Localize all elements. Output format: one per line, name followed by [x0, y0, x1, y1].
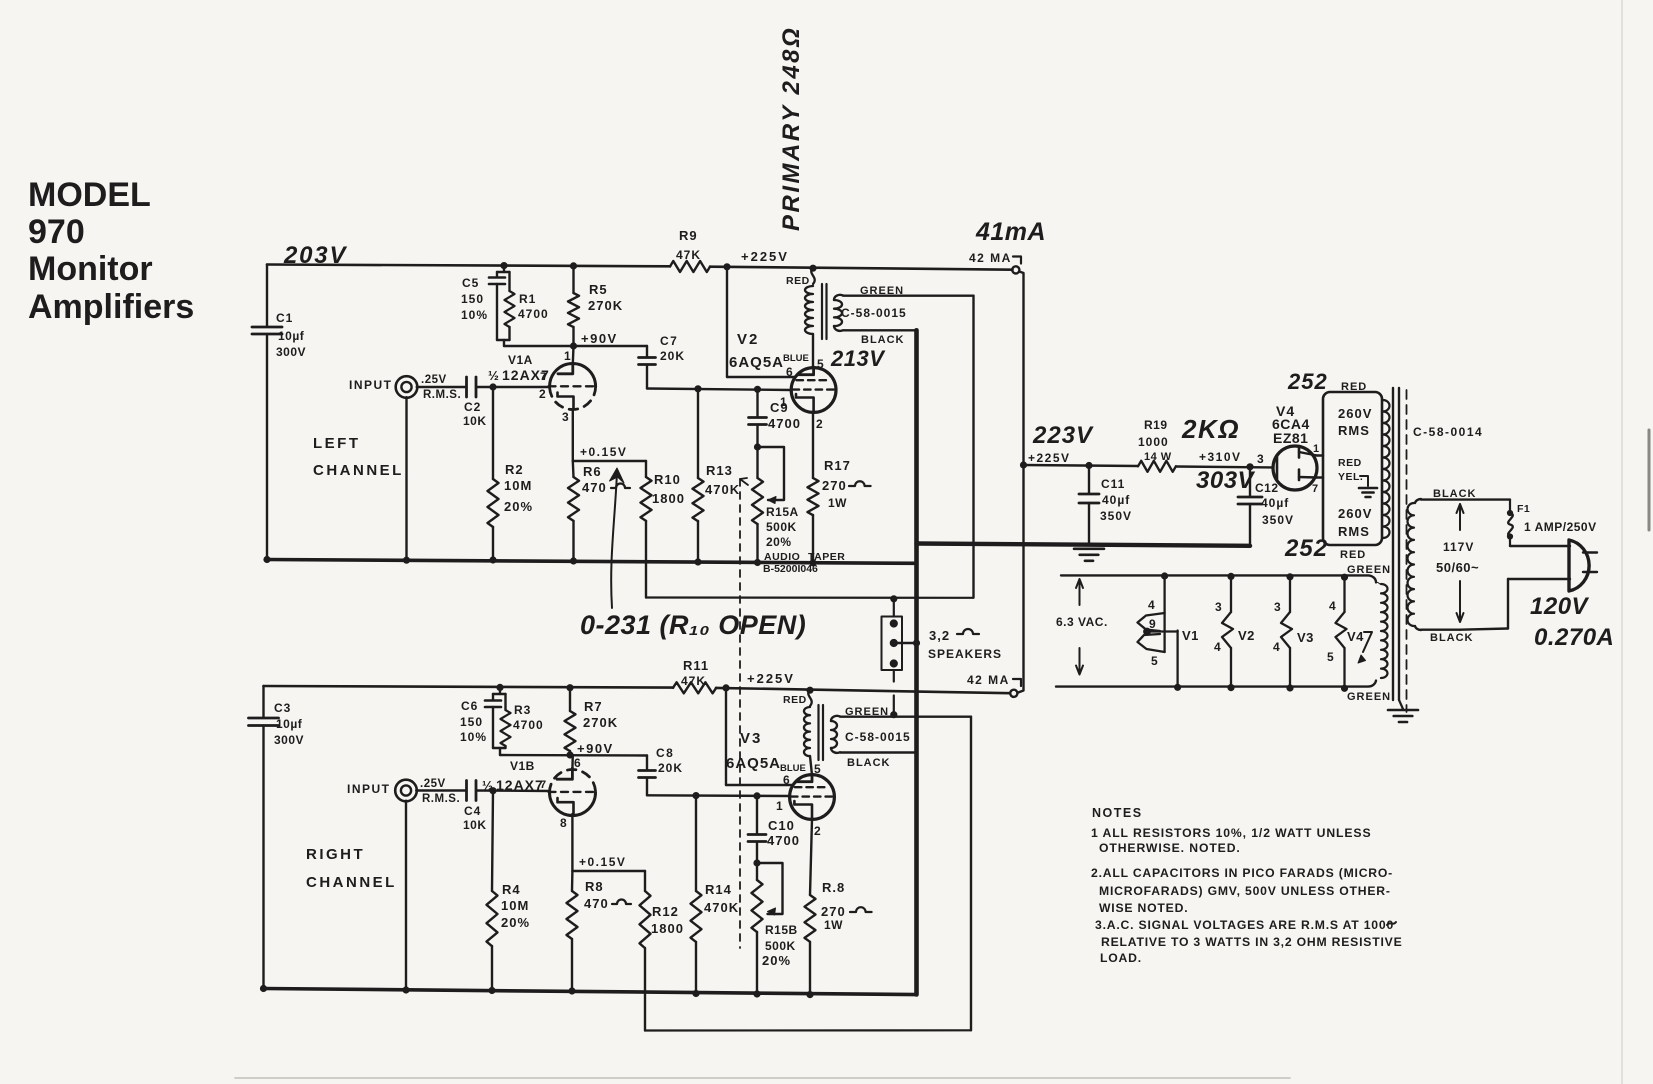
svg-text:C-58-0015: C-58-0015 [841, 306, 907, 320]
wire left channel bottom rail [267, 560, 917, 564]
svg-text:500K: 500K [766, 520, 797, 534]
wire +225V rail right of R9 to 42MA jack [710, 267, 1013, 270]
svg-text:INPUT: INPUT [349, 378, 393, 392]
wire T2 green lead to speaker switch [831, 716, 971, 721]
heater V2 [1228, 573, 1234, 579]
svg-text:20%: 20% [501, 915, 530, 930]
svg-text:GREEN: GREEN [1347, 691, 1391, 703]
svg-text:4: 4 [1329, 599, 1336, 613]
resistor R17 (270 1W, V2 cathode) [812, 412, 814, 478]
svg-text:0-231 (R₁₀ OPEN): 0-231 (R₁₀ OPEN) [580, 610, 806, 640]
svg-text:300V: 300V [274, 733, 304, 747]
svg-text:3: 3 [1257, 452, 1264, 466]
svg-text:223V: 223V [1032, 422, 1094, 449]
transformer T1 secondary winding [834, 300, 842, 326]
svg-text:203V: 203V [283, 242, 347, 269]
resistor R12 (1800 feedback right, crosses rail) [644, 871, 646, 891]
svg-text:V1B: V1B [510, 759, 535, 773]
svg-text:V2: V2 [737, 331, 759, 348]
svg-text:970: 970 [28, 213, 85, 251]
svg-text:V1A: V1A [508, 353, 533, 367]
svg-text:EZ81: EZ81 [1273, 430, 1308, 446]
transformer T3 power HV secondary box [1323, 392, 1382, 545]
svg-text:R6: R6 [583, 464, 602, 479]
svg-text:RMS: RMS [1338, 524, 1370, 539]
transformer T1 core [821, 284, 823, 339]
transformer T2 core [817, 705, 819, 760]
svg-text:BLACK: BLACK [861, 334, 905, 346]
svg-text:470K: 470K [704, 900, 739, 915]
svg-text:1: 1 [776, 799, 783, 813]
resistor R14 (470K) [693, 793, 699, 799]
svg-text:SPEAKERS: SPEAKERS [928, 647, 1002, 661]
wire right channel bottom rail [264, 989, 917, 995]
transformer T2 output right (C-58-0015) primary [807, 687, 813, 693]
svg-text:1: 1 [564, 349, 571, 363]
svg-text:C1: C1 [276, 311, 293, 325]
svg-text:1800: 1800 [651, 921, 684, 936]
svg-text:10µf: 10µf [278, 329, 305, 343]
svg-text:NOTES: NOTES [1092, 806, 1143, 820]
wire C2 to V1A grid [477, 386, 551, 388]
svg-text:R13: R13 [706, 463, 733, 478]
svg-text:V3: V3 [1297, 630, 1314, 645]
svg-text:BLACK: BLACK [1430, 632, 1474, 644]
svg-text:B-5200I046: B-5200I046 [763, 563, 818, 575]
plug AC line [1569, 540, 1589, 591]
tube V4 (6CA4 / EZ81 rectifier) [1273, 446, 1317, 490]
svg-text:WISE NOTED.: WISE NOTED. [1099, 901, 1188, 915]
svg-text:5: 5 [1327, 650, 1334, 664]
svg-text:4: 4 [1214, 640, 1221, 654]
svg-text:R.M.S.: R.M.S. [423, 389, 461, 401]
svg-text:4700: 4700 [513, 718, 544, 732]
wire T1 black lead to ground bus [834, 326, 917, 331]
svg-text:C11: C11 [1101, 477, 1125, 491]
svg-text:2: 2 [814, 824, 821, 838]
svg-text:R8: R8 [585, 879, 604, 894]
transformer T3 HV winding coil [1383, 400, 1390, 538]
svg-text:3.A.C. SIGNAL VOLTAGES ARE R.M: 3.A.C. SIGNAL VOLTAGES ARE R.M.S AT 1000 [1095, 918, 1394, 932]
svg-text:C7: C7 [660, 334, 678, 348]
svg-text:RED: RED [1341, 381, 1367, 393]
svg-text:RED: RED [1338, 457, 1362, 469]
svg-text:10M: 10M [504, 478, 532, 493]
svg-text:6.3 VAC.: 6.3 VAC. [1056, 615, 1108, 629]
wire +225V B+ feed line from PSU [1024, 465, 1139, 466]
capacitor C6 (150 10%) parallel R3 [497, 684, 503, 690]
svg-text:C5: C5 [462, 276, 479, 290]
capacitor C2 (coupling, 10K label) [465, 377, 468, 397]
wire C4 to V1B grid [477, 789, 551, 792]
svg-text:252: 252 [1284, 535, 1328, 562]
svg-text:3: 3 [1274, 600, 1281, 614]
svg-text:C3: C3 [274, 701, 291, 715]
capacitor C5 (150 10%) parallel R1 [501, 263, 507, 269]
svg-text:213V: 213V [830, 346, 886, 371]
svg-text:40µf: 40µf [1261, 496, 1289, 510]
svg-text:20%: 20% [504, 499, 533, 514]
svg-text:270: 270 [821, 904, 846, 919]
heater V1 (12AX7 pins 4/9/5) [1162, 573, 1168, 579]
svg-text:R17: R17 [824, 458, 851, 473]
svg-text:R4: R4 [502, 882, 521, 897]
svg-text:BLACK: BLACK [1433, 488, 1477, 500]
svg-text:260V: 260V [1338, 406, 1372, 421]
svg-text:8: 8 [560, 816, 567, 830]
resistor R5 (270K, V1A plate load) [570, 263, 576, 269]
svg-text:RED: RED [783, 694, 807, 706]
svg-text:GREEN: GREEN [860, 285, 904, 297]
resistor R3 (4700) parallel C6 [504, 694, 506, 710]
svg-text:½: ½ [488, 368, 499, 383]
svg-text:1800: 1800 [652, 491, 685, 506]
svg-text:1: 1 [1313, 443, 1319, 455]
svg-text:+225V: +225V [1028, 451, 1071, 465]
svg-text:C12: C12 [1255, 481, 1279, 495]
svg-text:20%: 20% [766, 535, 792, 549]
svg-text:42 MA: 42 MA [967, 673, 1010, 687]
svg-text:R.M.S.: R.M.S. [422, 793, 460, 805]
svg-text:R14: R14 [705, 882, 732, 897]
svg-text:6AQ5A: 6AQ5A [726, 755, 781, 772]
svg-text:C4: C4 [464, 804, 481, 818]
svg-text:V4: V4 [1347, 629, 1364, 644]
svg-text:LOAD.: LOAD. [1100, 951, 1142, 965]
capacitor C7 (20K coupling) [646, 346, 648, 357]
fuse F1 (1 AMP/250V) [1509, 500, 1511, 511]
svg-text:7: 7 [540, 779, 546, 791]
capacitor C1 (10uf 300V, in left border) [266, 265, 268, 327]
svg-text:RED: RED [786, 275, 810, 287]
resistor R7 (270K plate load V1B) [567, 685, 573, 691]
svg-text:4700: 4700 [768, 416, 801, 431]
svg-text:14 W: 14 W [1144, 451, 1172, 463]
wire T2 black lead to ground bus [831, 748, 917, 753]
svg-text:C-58-0015: C-58-0015 [845, 730, 911, 744]
svg-text:6AQ5A: 6AQ5A [729, 354, 784, 371]
svg-text:R10: R10 [654, 472, 681, 487]
svg-text:R9: R9 [679, 228, 698, 243]
wire input jack to C4 [416, 789, 466, 791]
svg-text:RED: RED [1340, 549, 1366, 561]
svg-text:RMS: RMS [1338, 423, 1370, 438]
svg-text:GREEN: GREEN [1347, 564, 1391, 576]
svg-text:R15A: R15A [766, 505, 799, 519]
svg-text:R15B: R15B [765, 923, 798, 937]
svg-text:CHANNEL: CHANNEL [306, 874, 397, 891]
svg-text:OTHERWISE. NOTED.: OTHERWISE. NOTED. [1099, 841, 1241, 855]
wire +90V node line (left) [504, 345, 647, 347]
dashed gang line R15A-R15B [739, 479, 741, 948]
node 6.3 VAC dimension [1076, 579, 1083, 605]
resistor R6 (470, V1A cathode) [572, 461, 575, 477]
svg-text:+310V: +310V [1199, 450, 1242, 464]
svg-text:9: 9 [1149, 617, 1156, 631]
capacitor C4 (coupling, 10K label) [465, 781, 468, 801]
tube V3 (6AQ5A output, right) [790, 775, 835, 820]
arrow annotation to R6 [611, 472, 617, 608]
svg-text:GREEN: GREEN [845, 706, 889, 718]
svg-text:2: 2 [539, 387, 546, 401]
svg-text:V3: V3 [740, 730, 762, 747]
svg-text:5: 5 [814, 762, 821, 776]
svg-text:.25V: .25V [421, 374, 447, 386]
wire green vertical drop (right) to R12 return [970, 717, 972, 1031]
wire R12 speaker return line [645, 1029, 971, 1031]
wire heater winding top line 6.3VAC [1061, 575, 1376, 582]
wire 203V top rail (left channel B+ rail left of R9) [267, 265, 670, 267]
resistor R.8 (270 1W cathode V3) [810, 819, 812, 895]
svg-text:40µf: 40µf [1102, 493, 1130, 507]
svg-text:270K: 270K [583, 715, 618, 730]
svg-text:2KΩ: 2KΩ [1181, 414, 1240, 444]
svg-text:2.ALL CAPACITORS IN PICO FARAD: 2.ALL CAPACITORS IN PICO FARADS (MICRO- [1091, 866, 1393, 880]
svg-text:10%: 10% [461, 308, 488, 322]
svg-text:3: 3 [562, 410, 569, 424]
wire +0.15V node line (left) [573, 460, 646, 462]
transformer T3 primary winding [1408, 503, 1415, 626]
svg-text:LEFT: LEFT [313, 435, 361, 452]
svg-text:+90V: +90V [577, 741, 614, 756]
svg-text:1 AMP/250V: 1 AMP/250V [1524, 520, 1597, 534]
resistor R9 (47K, series in B+ rail) [670, 261, 710, 272]
resistor R2 (10M 20%, grid leak V1A) [492, 387, 494, 479]
svg-text:MODEL: MODEL [28, 176, 151, 214]
wire V1A cathode to +0.15V node [572, 409, 574, 461]
svg-text:7: 7 [540, 371, 546, 383]
svg-text:INPUT: INPUT [347, 782, 391, 796]
resistor R11 (47K series B+ right) [673, 682, 716, 693]
input jack J2 (right INPUT) [395, 780, 417, 802]
svg-text:F1: F1 [1517, 503, 1530, 515]
svg-text:350V: 350V [1100, 509, 1132, 523]
heater V3 [1287, 574, 1293, 580]
svg-text:4: 4 [1273, 640, 1280, 654]
svg-text:PRIMARY 248Ω: PRIMARY 248Ω [778, 26, 805, 231]
capacitor C12 (40uf 350V filter) [1247, 464, 1253, 470]
wire right input jack ground leg [405, 801, 407, 990]
svg-text:R11: R11 [683, 658, 709, 673]
svg-text:10K: 10K [463, 414, 487, 428]
resistor R4 (10M 20% grid leak V1B) [492, 791, 493, 891]
wire V3 screen-grid drop from +225V rail [723, 685, 729, 691]
transformer T2 secondary winding [831, 721, 837, 748]
wire 42MA jack bus vertical [1018, 272, 1024, 693]
svg-text:3: 3 [1215, 600, 1222, 614]
scan artifact lines [1621, 0, 1623, 1084]
wire +90V node line (right) [500, 754, 647, 757]
svg-text:470: 470 [582, 480, 607, 495]
ground symbol transformer core [1399, 700, 1403, 709]
svg-text:10µf: 10µf [276, 717, 303, 731]
svg-text:RELATIVE TO 3 WATTS IN 3,2 OHM: RELATIVE TO 3 WATTS IN 3,2 OHM RESISTIVE [1101, 935, 1403, 949]
svg-text:C-58-0014: C-58-0014 [1413, 425, 1483, 439]
svg-text:R.8: R.8 [822, 880, 845, 895]
svg-text:4700: 4700 [767, 833, 800, 848]
wire V1B cathode to +0.15V node [571, 814, 573, 871]
svg-text:300V: 300V [276, 345, 306, 359]
svg-text:252: 252 [1287, 369, 1328, 394]
svg-text:1 ALL RESISTORS 10%, 1/2 WATT: 1 ALL RESISTORS 10%, 1/2 WATT UNLESS [1091, 826, 1372, 840]
wire right channel B+ rail left of R11 [264, 686, 674, 688]
svg-text:350V: 350V [1262, 513, 1294, 527]
svg-text:R19: R19 [1144, 418, 1168, 432]
svg-text:Amplifiers: Amplifiers [28, 288, 194, 326]
tube V1A (1/2 12AX7 triode, left) [550, 364, 596, 387]
transformer T3 heater winding (green) [1381, 584, 1388, 678]
svg-text:MICROFARADS) GMV, 500V UNLESS: MICROFARADS) GMV, 500V UNLESS OTHER- [1099, 884, 1391, 898]
svg-text:12AX7: 12AX7 [496, 777, 544, 793]
svg-text:150: 150 [461, 292, 484, 306]
svg-text:10%: 10% [460, 730, 487, 744]
svg-text:CHANNEL: CHANNEL [313, 462, 404, 479]
svg-text:20K: 20K [658, 761, 683, 775]
svg-text:4700: 4700 [518, 307, 549, 321]
svg-text:10K: 10K [463, 818, 487, 832]
svg-text:260V: 260V [1338, 506, 1372, 521]
svg-text:R2: R2 [505, 462, 524, 477]
resistor R13 (470K) [695, 386, 701, 392]
svg-text:C9: C9 [770, 400, 789, 415]
capacitor C11 (40uf 350V filter) [1086, 462, 1092, 468]
svg-text:+0.15V: +0.15V [579, 855, 626, 869]
svg-text:+225V: +225V [747, 671, 795, 686]
svg-text:50/60~: 50/60~ [1436, 560, 1479, 575]
wire green vertical drop (left) to speaker switch line [972, 296, 974, 598]
svg-text:150: 150 [460, 715, 483, 729]
svg-text:Monitor: Monitor [28, 250, 153, 288]
svg-text:47K: 47K [676, 248, 701, 262]
svg-text:C6: C6 [461, 699, 478, 713]
wire input jack to C2 [417, 386, 466, 388]
svg-text:R3: R3 [514, 703, 531, 717]
svg-text:117V: 117V [1443, 540, 1474, 554]
svg-text:AUDIO: AUDIO [764, 551, 800, 563]
svg-text:+225V: +225V [741, 249, 789, 264]
svg-text:0.270A: 0.270A [1534, 624, 1614, 651]
svg-text:6: 6 [574, 756, 581, 770]
svg-text:+90V: +90V [581, 331, 618, 346]
svg-text:C10: C10 [768, 818, 795, 833]
svg-text:1000: 1000 [1138, 435, 1169, 449]
capacitor C8 (20K coupling) [646, 756, 648, 771]
svg-text:470: 470 [584, 896, 609, 911]
heater V4 (with chassis arrow) [1341, 574, 1347, 580]
capacitor C9 (4700) [754, 386, 760, 392]
wire R19 to V4 cathode (pin 3) [1176, 467, 1274, 468]
svg-text:47K: 47K [681, 674, 706, 688]
svg-text:470K: 470K [705, 482, 740, 497]
resistor R8 (470 cathode V1B) [571, 871, 574, 891]
capacitor C10 (4700) [754, 793, 760, 799]
svg-text:5: 5 [1151, 654, 1158, 668]
wire +225V rail right of R11 to 42MA jack [716, 688, 1010, 693]
wire V1B plate lead [571, 755, 574, 769]
ground symbol at C11 [1074, 547, 1104, 550]
svg-text:BLACK: BLACK [847, 757, 891, 769]
svg-text:R12: R12 [652, 904, 679, 919]
wire V2 screen-grid drop from +225V rail [724, 264, 730, 270]
resistor R1 (4700) parallel C5 [508, 272, 510, 291]
svg-text:+0.15V: +0.15V [580, 445, 627, 459]
wire V1A plate lead [572, 346, 575, 364]
svg-text:V1: V1 [1182, 628, 1199, 643]
svg-text:20%: 20% [762, 953, 791, 968]
svg-text:½: ½ [482, 778, 493, 793]
wire T1 green lead (left channel speaker hot) [834, 295, 974, 300]
tube V1B (1/2 12AX7 triode, right) [550, 793, 596, 816]
svg-text:3,2: 3,2 [929, 628, 950, 643]
svg-text:BLUE: BLUE [783, 353, 809, 364]
svg-text:270: 270 [822, 478, 847, 493]
svg-text:C2: C2 [464, 400, 481, 414]
wire V2 grid line [647, 389, 791, 391]
wire ground bus horizontal (thick) to PSU [917, 544, 1251, 546]
svg-text:303V: 303V [1196, 467, 1256, 494]
wire primary top lead (BLACK) to fuse [1415, 499, 1510, 503]
wire heater winding bottom line [1056, 681, 1376, 687]
svg-text:42 MA: 42 MA [969, 251, 1012, 265]
svg-text:7: 7 [1312, 483, 1318, 495]
svg-text:C8: C8 [656, 746, 674, 760]
svg-text:10M: 10M [501, 898, 529, 913]
capacitor C3 (10uf 300V in right border) [262, 686, 264, 718]
wire fuse to plug (hot) [1510, 545, 1570, 547]
svg-text:41mA: 41mA [975, 218, 1046, 246]
transformer T3 core [1392, 388, 1394, 700]
wire V3 grid line [647, 794, 790, 797]
tube V2 (6AQ5A output, left) [791, 368, 836, 413]
svg-text:5: 5 [817, 357, 824, 371]
svg-text:R1: R1 [519, 292, 536, 306]
svg-text:R5: R5 [589, 282, 608, 297]
svg-text:120V: 120V [1530, 593, 1590, 620]
potentiometer R15B (500K 20%) [754, 860, 760, 866]
svg-text:RIGHT: RIGHT [306, 846, 365, 863]
transformer T1 output left (C-58-0015) primary [810, 265, 816, 271]
wire +0.15V node line (right) [572, 870, 645, 872]
svg-text:20K: 20K [660, 349, 685, 363]
svg-text:V2: V2 [1238, 628, 1255, 643]
resistor R10 (1800, feedback - crosses rail to speaker line) [645, 461, 647, 477]
svg-text:1W: 1W [824, 918, 843, 932]
svg-text:500K: 500K [765, 939, 796, 953]
node 117V 50/60 dimension [1457, 504, 1464, 530]
svg-text:1W: 1W [828, 496, 847, 510]
wire input jack ground leg [405, 397, 407, 560]
svg-text:2: 2 [816, 417, 823, 431]
potentiometer R15A (500K 20% audio taper) [754, 444, 760, 450]
switch speaker selector (3 contacts) [882, 617, 903, 671]
svg-text:4: 4 [1148, 598, 1155, 612]
resistor R19 (1000 14W dropping) [1138, 461, 1176, 472]
wire ground bus vertical (black, thick) [914, 330, 919, 994]
wire speaker feedback line (R10 to switch to green) [646, 596, 974, 598]
svg-text:R7: R7 [584, 699, 603, 714]
input jack J1 (left INPUT) [396, 376, 418, 398]
wire primary bottom lead (BLACK) to plug [1415, 626, 1460, 630]
svg-text:.25V: .25V [420, 778, 446, 790]
svg-text:270K: 270K [588, 298, 623, 313]
svg-text:YEL.: YEL. [1338, 471, 1363, 483]
